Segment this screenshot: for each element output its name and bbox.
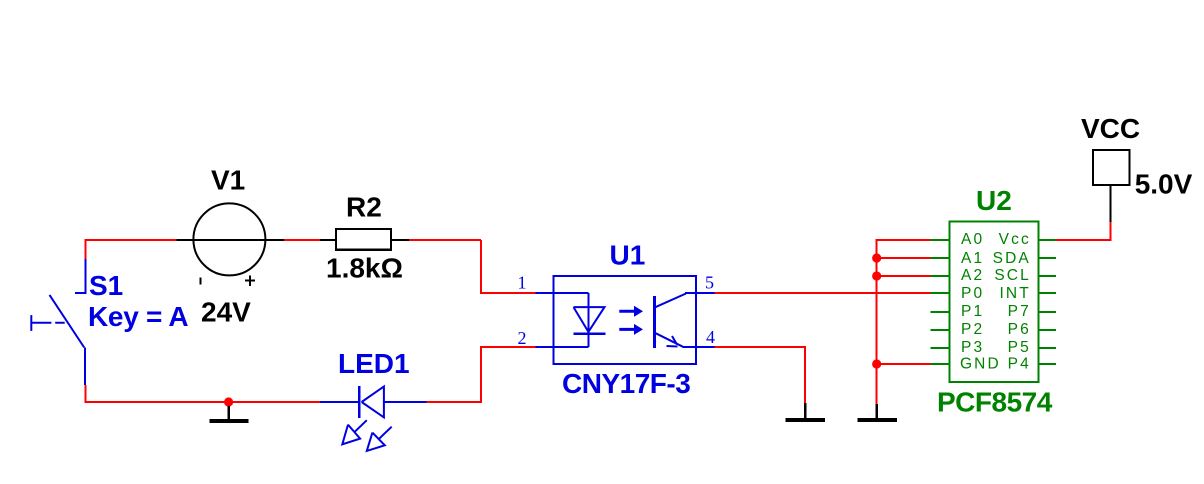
- svg-text:PCF8574: PCF8574: [937, 387, 1053, 418]
- U1 pin 2 stub: [535, 346, 553, 348]
- svg-text:1: 1: [518, 273, 527, 293]
- wire: U2 Vcc to VCC supply (red): [1056, 222, 1111, 240]
- VCC power symbol: [1093, 150, 1129, 185]
- U1 pin 4 stub: [696, 346, 714, 348]
- svg-text:P0: P0: [961, 285, 984, 302]
- junction dot A2: [872, 271, 881, 280]
- svg-text:INT: INT: [1000, 285, 1031, 302]
- svg-text:LED1: LED1: [338, 348, 410, 379]
- junction dot A1: [872, 253, 881, 262]
- switch S1 actuator: [31, 315, 64, 331]
- voltage source V1: [193, 203, 265, 275]
- wire: bus A0 to U2 (red): [877, 240, 931, 404]
- ground symbol (bottom left): [210, 406, 249, 423]
- svg-text:GND: GND: [960, 356, 1001, 373]
- IC U2 PCF8574: [931, 222, 1057, 383]
- LED LED1: [320, 386, 427, 451]
- wire: bus to A1 (red): [877, 257, 931, 259]
- U1 pin 5 stub: [696, 292, 714, 294]
- svg-text:5.0V: 5.0V: [1135, 169, 1193, 200]
- svg-text:Vcc: Vcc: [999, 231, 1031, 248]
- resistor R2: [320, 229, 409, 250]
- svg-text:U2: U2: [976, 185, 1012, 216]
- wire: U1 pin 5 to U2 P0 (red): [714, 292, 930, 294]
- svg-text:R2: R2: [346, 192, 382, 223]
- svg-text:P6: P6: [1008, 321, 1031, 338]
- svg-text:U1: U1: [610, 240, 646, 271]
- svg-text:SCL: SCL: [994, 267, 1030, 284]
- ground symbol (middle, U1 pin4): [786, 403, 826, 422]
- svg-text:5: 5: [705, 273, 714, 293]
- wire: top net S1 to R2 (red): [85, 240, 481, 259]
- svg-text:A2: A2: [961, 267, 984, 284]
- svg-text:SDA: SDA: [993, 250, 1031, 267]
- V1 wire through circle (black): [193, 239, 265, 241]
- svg-text:P7: P7: [1008, 303, 1031, 320]
- svg-text:Key = A: Key = A: [88, 301, 188, 332]
- U2 right pin stubs: [1039, 240, 1057, 364]
- svg-text:S1: S1: [89, 270, 123, 301]
- wire: R2 to U1 pin 1 (red): [481, 240, 535, 293]
- switch S1: [75, 259, 85, 385]
- svg-text:4: 4: [706, 327, 715, 347]
- svg-text:CNY17F-3: CNY17F-3: [562, 368, 690, 399]
- junction dot (bottom-left ground node): [224, 397, 233, 406]
- ground symbol (right, U2 GND bus): [857, 404, 897, 422]
- switch S1 blade: [50, 295, 85, 348]
- wire: VCC supply lead (black): [1110, 185, 1112, 222]
- V1 minus mark: [200, 278, 202, 285]
- svg-text:P1: P1: [961, 303, 984, 320]
- svg-text:P3: P3: [961, 339, 984, 356]
- U1 light arrows: [619, 311, 635, 329]
- svg-text:1.8kΩ: 1.8kΩ: [326, 253, 403, 284]
- U1 box: [554, 276, 697, 364]
- svg-text:2: 2: [518, 328, 527, 348]
- U1 phototransistor: [653, 296, 656, 348]
- svg-text:P5: P5: [1008, 339, 1031, 356]
- svg-text:V1: V1: [211, 165, 245, 196]
- optocoupler U1: [535, 276, 714, 364]
- U1 pin 1 stub: [535, 292, 553, 294]
- wire: U1 pin 4 to ground (red): [714, 347, 805, 403]
- wire: bus to A2 (red): [877, 275, 931, 277]
- svg-text:A0: A0: [961, 231, 984, 248]
- wire: bus to GND pin (red): [877, 363, 931, 365]
- junction dot GND: [872, 359, 881, 368]
- wire: LED1 to U1 pin 2 (red): [427, 347, 536, 402]
- U2 left pin stubs: [931, 240, 950, 364]
- wire: S1 bottom to LED1 (bottom net, red): [85, 385, 320, 402]
- wire: V1 through-line (black): [177, 239, 284, 241]
- svg-text:24V: 24V: [201, 297, 251, 328]
- svg-text:A1: A1: [961, 250, 984, 267]
- V1 plus mark: [245, 276, 255, 286]
- svg-text:P4: P4: [1008, 356, 1031, 373]
- U1 internal LED: [554, 293, 589, 347]
- svg-text:VCC: VCC: [1081, 113, 1140, 144]
- svg-text:P2: P2: [961, 321, 984, 338]
- U2 box: [950, 222, 1039, 383]
